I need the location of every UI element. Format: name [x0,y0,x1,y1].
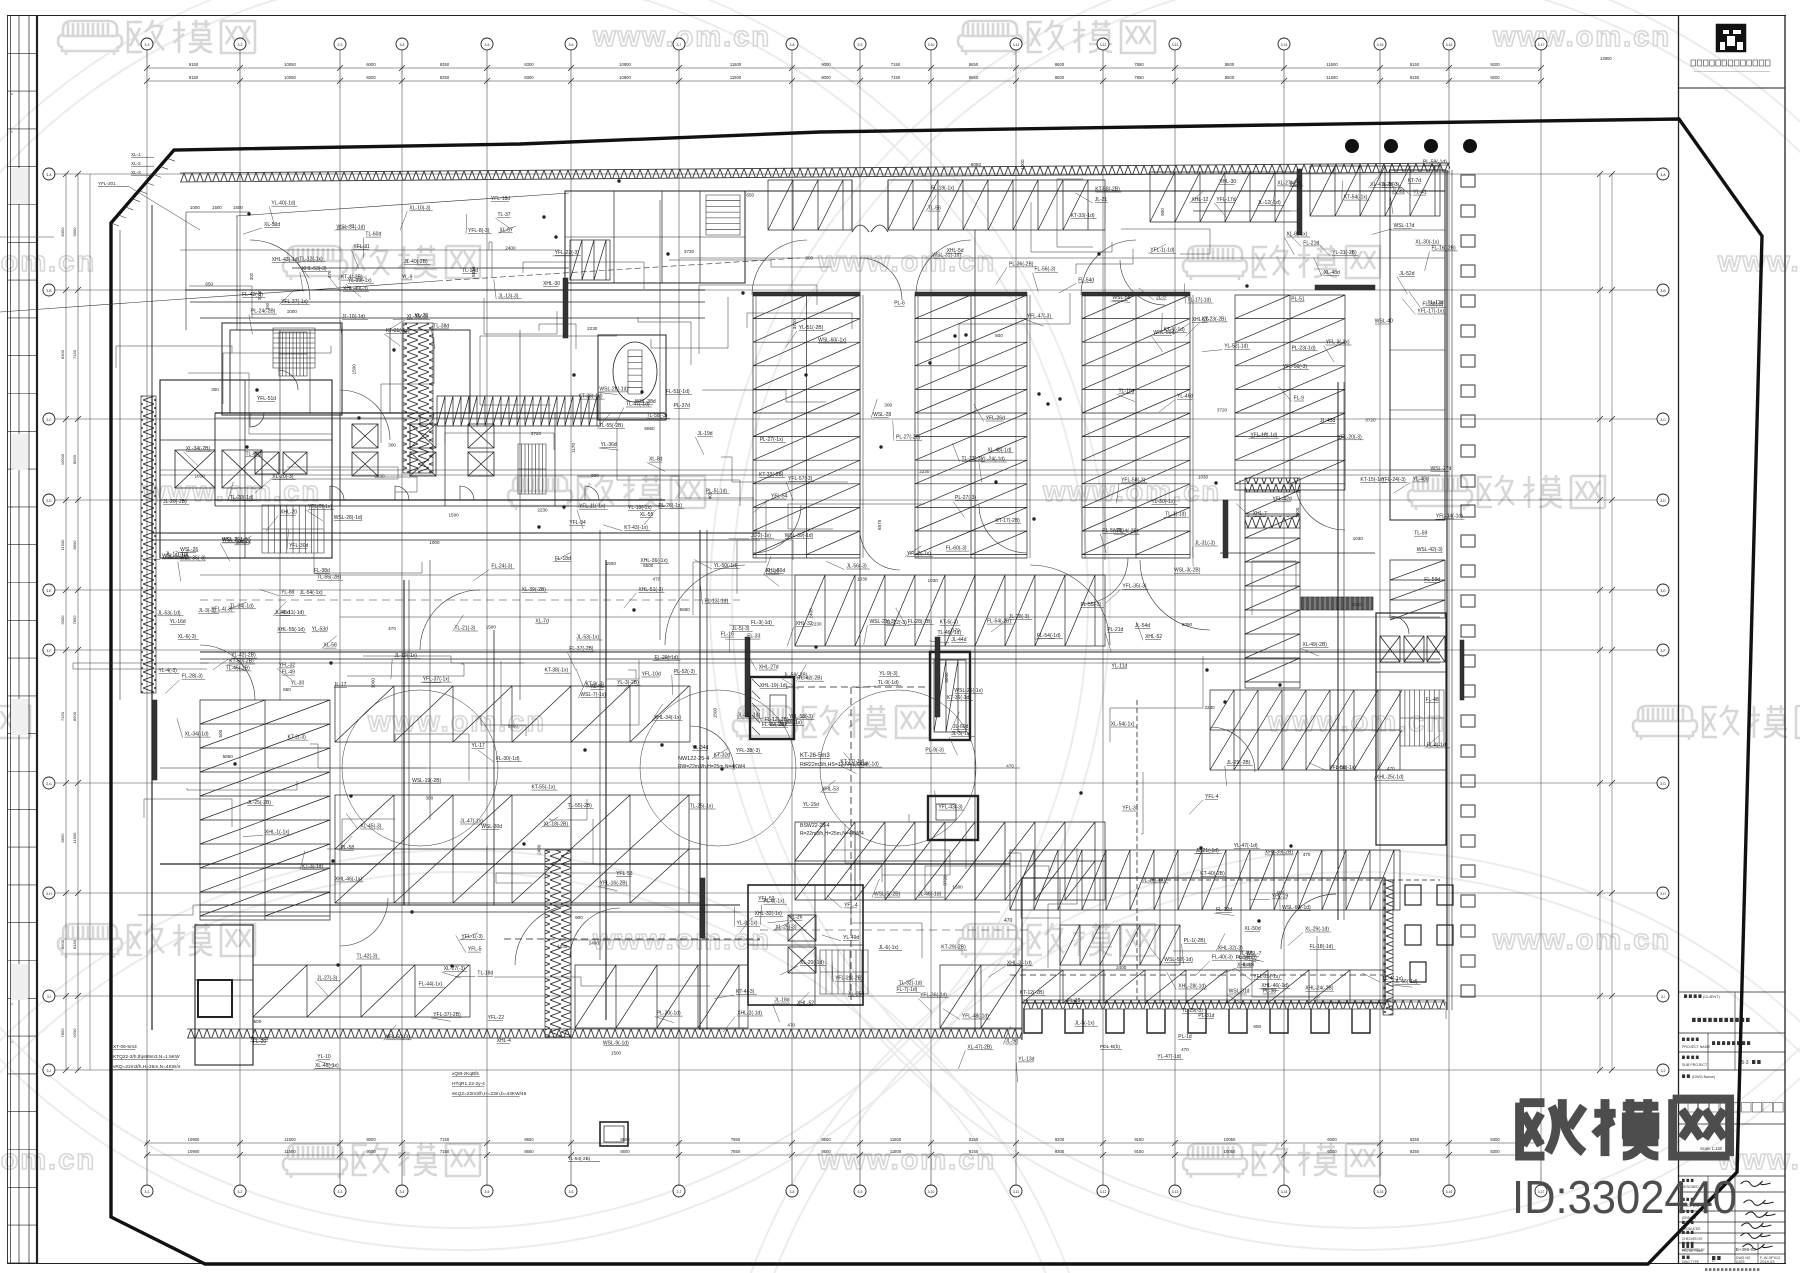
svg-text:8600: 8600 [1055,62,1065,67]
svg-text:YL-48d: YL-48d [1413,476,1429,482]
svg-text:XHL-52: XHL-52 [1145,634,1162,640]
top excavation hatch band [180,163,1450,182]
svg-text:KT-58(-2B): KT-58(-2B) [1095,187,1120,193]
svg-text:8150: 8150 [969,1137,979,1142]
top axis bubbles [141,38,153,50]
svg-text:3-F: 3-F [1660,649,1665,653]
svg-text:xQ8t-zKqBfs: xQ8t-zKqBfs [452,1071,480,1077]
svg-text:PL-37d: PL-37d [674,403,690,409]
svg-text:WSL-30d: WSL-30d [481,824,502,830]
svg-text:8150: 8150 [72,939,77,949]
svg-text:(B+396-03: (B+396-03 [1734,1247,1756,1252]
svg-text:XL-18(-2B): XL-18(-2B) [544,821,569,827]
svg-text:KT-12(-2B): KT-12(-2B) [1020,990,1045,996]
svg-text:3-12: 3-12 [1100,1190,1107,1194]
svg-text:YFL-43(-3): YFL-43(-3) [938,805,963,811]
left dimension lines [65,174,67,1070]
svg-text:8650: 8650 [969,62,979,67]
svg-text:9000: 9000 [821,75,831,80]
svg-text:WSL-58: WSL-58 [1112,295,1130,301]
svg-text:XL-39(-2B): XL-39(-2B) [522,587,547,593]
svg-text:XT-05-5m3: XT-05-5m3 [113,1044,137,1050]
svg-text:650: 650 [746,193,754,198]
svg-text:TL-55(-2B): TL-55(-2B) [599,423,624,429]
svg-text:FL-19: FL-19 [1067,998,1080,1004]
svg-text:1500: 1500 [486,624,497,629]
parking comb mid-left lower [335,795,700,903]
svg-text:8600: 8600 [60,939,65,949]
svg-text:FL-44(-1x): FL-44(-1x) [419,982,443,988]
right lower hatch strip [1383,880,1393,1015]
bottom axis bubbles [141,1185,153,1197]
svg-text:3720: 3720 [1217,407,1228,412]
svg-text:XHL-30: XHL-30 [543,281,560,287]
svg-text:XHL-2(-1d): XHL-2(-1d) [737,1011,762,1017]
svg-text:XL-55: XL-55 [640,512,654,518]
svg-text:XHL-26: XHL-26 [1192,317,1209,323]
big watermark overlay OMW [1520,1099,1730,1156]
svg-text:JL-46(-1d): JL-46(-1d) [918,892,941,898]
svg-text:10900: 10900 [60,453,65,465]
svg-text:1030: 1030 [1198,475,1209,480]
svg-text:11600: 11600 [890,1149,902,1154]
door swing arcs [752,240,807,295]
dense zigzag duct [437,396,600,426]
svg-text:KT-5(-3): KT-5(-3) [940,620,959,626]
prj number row [1682,1245,1685,1248]
svg-text:300: 300 [884,403,892,408]
svg-text:TL-45(-2B): TL-45(-2B) [226,665,251,671]
svg-text:YFL-4(-2B): YFL-4(-2B) [1114,529,1139,535]
svg-text:FL-21d: FL-21d [1303,240,1319,246]
svg-text:DATE: DATE [1736,1260,1746,1264]
bottom dimension lines [145,1142,1541,1144]
svg-text:8300: 8300 [524,75,534,80]
svg-text:YL-53d: YL-53d [312,626,328,632]
svg-text:XL-3: XL-3 [131,170,141,175]
svg-text:JL-29(-2B): JL-29(-2B) [1227,760,1251,766]
svg-text:PRJ.SETTING: PRJ.SETTING [1682,1249,1703,1253]
central pump room (thick walls) [750,677,794,739]
parking comb bottom row left [575,965,748,1028]
right ladder extension [1245,490,1300,688]
svg-text:3-E: 3-E [1660,589,1666,593]
svg-text:1500: 1500 [606,561,617,566]
svg-text:YFL-18d: YFL-18d [491,196,510,202]
svg-text:9000: 9000 [72,227,77,237]
svg-text:XHL-25(-1d): XHL-25(-1d) [1376,775,1404,781]
svg-text:WSL-19(-2B): WSL-19(-2B) [412,778,442,784]
svg-text:8500: 8500 [72,711,77,721]
svg-text:FL-4(-1d): FL-4(-1d) [1427,742,1448,748]
svg-text:RW=22m3/h,H=25m,N=4KW4: RW=22m3/h,H=25m,N=4KW4 [678,764,745,770]
svg-text:JL-5: JL-5 [1156,294,1166,300]
bottom row dwg type/no [1682,1256,1685,1259]
horizontal grid lines [54,173,1658,175]
central services corridor band [215,412,665,414]
svg-text:XL-25(-3): XL-25(-3) [775,924,796,930]
svg-text:3-14: 3-14 [1281,1190,1288,1194]
svg-text:300: 300 [426,795,434,800]
aisle line top [680,257,1445,259]
svg-text:650: 650 [283,687,291,692]
svg-text:YL-21(-2B): YL-21(-2B) [1332,250,1357,256]
svg-text:1500: 1500 [449,512,460,517]
svg-text:YFL-50(-3): YFL-50(-3) [386,1034,411,1040]
svg-text:KT-50(-2B): KT-50(-2B) [229,659,254,665]
svg-text:5850: 5850 [644,426,655,431]
svg-text:3720: 3720 [684,249,695,254]
svg-text:11500: 11500 [284,1149,296,1154]
aisle center dashes [504,938,760,940]
svg-text:TL-33(-3): TL-33(-3) [962,456,983,462]
svg-text:470: 470 [1004,918,1013,924]
big lane arc bottom right [1281,894,1336,949]
wall vertical A [699,530,701,1030]
svg-text:FL-18d: FL-18d [555,556,571,562]
svg-text:FL-9: FL-9 [1294,396,1305,402]
svg-text:YL-15d: YL-15d [803,802,819,808]
right rooms top [1390,170,1445,520]
pipe horizontal dashed [1150,879,1440,881]
svg-text:3: 3 [10,131,14,133]
svg-text:FL-54d: FL-54d [1078,277,1094,283]
svg-text:11600: 11600 [72,832,77,844]
svg-text:7850: 7850 [60,1028,65,1038]
svg-text:FL-12d: FL-12d [1216,907,1232,913]
svg-text:6: 6 [10,93,14,95]
inner hatch strip A [403,323,433,473]
svg-text:14900: 14900 [1600,56,1612,61]
parking comb mid-right lower [795,822,1105,900]
svg-text:WSL-27d: WSL-27d [1431,466,1452,472]
svg-text:TL-32(-1d): TL-32(-1d) [899,981,923,987]
svg-text:9000: 9000 [821,62,831,67]
svg-text:XHL-39(-2B): XHL-39(-2B) [1265,849,1293,855]
svg-text:XHL-34(-1x): XHL-34(-1x) [654,715,682,721]
svg-text:1030: 1030 [557,944,568,949]
svg-text:XHL-12: XHL-12 [1191,197,1208,203]
svg-text:NW122-25-4: NW122-25-4 [678,756,709,762]
svg-text:1030: 1030 [1351,602,1362,607]
svg-text:FL-12(-2B): FL-12(-2B) [765,717,790,723]
svg-text:YFL-6(-1x): YFL-6(-1x) [907,551,931,557]
svg-text:JL-13(-3): JL-13(-3) [498,293,519,299]
top rooms 565-745 [565,191,745,283]
svg-text:JL-5(-3): JL-5(-3) [1382,182,1400,188]
svg-text:9000: 9000 [60,615,65,625]
svg-text:XL-50d: XL-50d [1245,926,1261,932]
svg-text:3-16: 3-16 [1446,43,1453,47]
svg-text:KT-40(-2B): KT-40(-2B) [1200,871,1225,877]
svg-text:9000: 9000 [366,1137,376,1142]
svg-text:KT-17(-2B): KT-17(-2B) [995,518,1020,524]
svg-text:3720: 3720 [1336,765,1347,770]
svg-text:YFL-24(-3): YFL-24(-3) [1382,477,1407,483]
left frame thick line [36,16,38,1264]
svg-text:YFL-31: YFL-31 [353,244,370,250]
svg-text:XHL-28(-1d): XHL-28(-1d) [1178,984,1206,990]
svg-text:8650: 8650 [72,454,77,464]
svg-text:FL-42(-3): FL-42(-3) [242,292,263,298]
svg-text:2230: 2230 [811,622,822,627]
svg-text:WSL-5(-2B): WSL-5(-2B) [874,892,901,898]
svg-text:YL-49d: YL-49d [843,935,859,941]
svg-text:YFL-36(-1d): YFL-36(-1d) [920,992,947,998]
svg-text:YFL-22(-3): YFL-22(-3) [555,250,580,256]
svg-text:8050: 8050 [971,162,982,167]
svg-text:3-D: 3-D [46,499,52,503]
svg-text:WSL-5(-1x): WSL-5(-1x) [162,553,188,559]
svg-text:FL-48: FL-48 [1426,697,1439,703]
svg-text:WSL-28(-1d): WSL-28(-1d) [599,386,628,392]
svg-text:TL-58(-3): TL-58(-3) [647,413,668,419]
svg-text:3-1: 3-1 [145,1190,150,1194]
right axis bubbles [1657,168,1669,180]
svg-text:WSL-28: WSL-28 [873,412,891,418]
svg-text:3-5: 3-5 [485,1190,490,1194]
svg-text:8300: 8300 [524,62,534,67]
svg-text:470: 470 [327,270,332,278]
svg-text:7850: 7850 [731,1137,741,1142]
svg-text:YFL-11(-1x): YFL-11(-1x) [579,504,606,510]
svg-text:TL-20(-1d): TL-20(-1d) [230,495,254,501]
svg-text:1500: 1500 [212,205,222,210]
svg-text:3-I: 3-I [1661,995,1665,999]
svg-text:1500: 1500 [352,364,357,375]
wall vertical B [1337,382,1339,920]
svg-text:YFL-8(-3): YFL-8(-3) [468,228,490,234]
svg-text:PL-21d: PL-21d [1107,627,1123,633]
svg-text:900: 900 [575,915,583,920]
svg-text:6500: 6500 [643,563,654,568]
svg-text:TL-9(-1d): TL-9(-1d) [878,680,899,686]
svg-text:KT-36(-1d): KT-36(-1d) [947,695,971,701]
svg-text:XHL-3(-1d): XHL-3(-1d) [1007,960,1032,966]
svg-text:PL-58(-1d): PL-58(-1d) [1423,160,1447,166]
mid-left wall pair [200,904,740,906]
svg-text:JL-18d: JL-18d [774,998,790,1004]
svg-text:XL-6(-3): XL-6(-3) [178,634,197,640]
svg-text:XL-56(-3): XL-56(-3) [407,314,428,320]
svg-text:XHL-49(-3): XHL-49(-3) [343,286,368,292]
svg-text:8150: 8150 [1410,75,1420,80]
svg-text:JL-19d: JL-19d [697,431,713,437]
svg-text:YL-30: YL-30 [291,681,305,687]
svg-text:FL-30(-1d): FL-30(-1d) [496,756,520,762]
svg-text:XL-27(-3): XL-27(-3) [444,966,465,972]
svg-text:JL-2(-1x): JL-2(-1x) [751,533,771,539]
comb bottom-right small [1060,925,1180,965]
svg-text:XL-20(-1d): XL-20(-1d) [800,960,824,966]
svg-text:JL-59(-2B): JL-59(-2B) [784,672,808,678]
company name pseudo text [1691,60,1696,66]
project name row [1682,1038,1685,1041]
svg-text:9200: 9200 [1490,62,1500,67]
svg-text:YL-13d: YL-13d [1018,1056,1034,1062]
svg-text:2230: 2230 [537,508,548,513]
svg-text:TL-10d: TL-10d [1119,388,1135,394]
svg-text:YFL-42d: YFL-42d [1273,496,1292,502]
parking comb mid-left upper [335,686,690,742]
parking ladder G3 [1082,295,1190,558]
client row [1684,994,1687,998]
svg-text:sKQ2=22m3/h,H=23m,b=44KW/46: sKQ2=22m3/h,H=23m,b=44KW/46 [452,1091,527,1097]
svg-text:YL-41: YL-41 [1413,190,1427,196]
svg-text:500: 500 [254,1019,262,1024]
svg-text:8500: 8500 [821,1137,831,1142]
svg-text:PROJECT NAME: PROJECT NAME [1682,1045,1711,1049]
top-left stair room [222,323,342,415]
corridor line B [152,532,760,534]
sheet frame bottom border [7,1263,1786,1265]
corridor double line A [200,651,1440,653]
svg-text:TL-17(-1d): TL-17(-1d) [1187,298,1211,304]
svg-text:PL-24(-2B): PL-24(-2B) [251,309,276,315]
svg-text:YL-11d: YL-11d [1112,663,1128,669]
svg-text:10900: 10900 [188,1137,200,1142]
svg-text:300: 300 [249,272,254,280]
svg-text:500: 500 [218,729,223,737]
svg-text:3-3: 3-3 [338,1190,343,1194]
svg-text:11500: 11500 [284,1137,296,1142]
svg-text:XHL-7: XHL-7 [1253,511,1267,517]
svg-text:YFL-4: YFL-4 [1205,794,1219,800]
svg-text:9: 9 [10,1041,14,1043]
svg-text:2: 2 [10,1003,14,1005]
svg-text:KT-54(-1x): KT-54(-1x) [1344,195,1368,201]
svg-text:KT-55(-1x): KT-55(-1x) [532,785,556,791]
svg-text:3720: 3720 [942,875,947,886]
svg-text:YFL-18(-1d): YFL-18(-1d) [1250,433,1277,439]
parking comb right middle [1210,690,1402,770]
svg-text:8650: 8650 [524,1149,534,1154]
striped duct rects [1245,478,1300,492]
svg-text:1000: 1000 [1295,507,1300,518]
svg-text:JL-44d: JL-44d [951,637,967,643]
svg-text:3-1: 3-1 [145,43,150,47]
svg-text:2019.03: 2019.03 [1760,1259,1775,1264]
svg-text:8350: 8350 [1410,1137,1420,1142]
right shoring pile squares [1461,175,1475,187]
svg-text:1000: 1000 [429,540,440,545]
svg-text:470: 470 [653,576,661,581]
svg-text:1030: 1030 [928,578,939,583]
svg-text:FL-39(-2B): FL-39(-2B) [762,722,787,728]
svg-text:WSL-26(-1x): WSL-26(-1x) [954,688,983,694]
right margin dim verticals [1599,174,1601,1070]
right plan wall [1446,170,1448,1010]
center room B thick [930,652,970,740]
parking comb bottom right [1010,850,1400,910]
svg-text:YFL-57(-3): YFL-57(-3) [788,476,813,482]
svg-text:8050: 8050 [1182,622,1193,627]
svg-text:YL-47(-1d): YL-47(-1d) [1234,843,1258,849]
svg-text:XL-46: XL-46 [591,684,605,690]
svg-text:vRQ=22m3/h,H=25m,N=4KW/4: vRQ=22m3/h,H=25m,N=4KW/4 [113,1064,181,1070]
svg-text:YFL-25(-1x): YFL-25(-1x) [1253,974,1280,980]
svg-text:YFL-5: YFL-5 [468,947,482,953]
svg-text:www.om.cn: www.om.cn [1492,924,1671,956]
svg-text:8600: 8600 [1055,75,1065,80]
dark grating strip [1301,597,1373,610]
svg-text:JL-52d: JL-52d [1399,271,1415,277]
svg-text:YFL-22: YFL-22 [488,1015,505,1021]
svg-text:XL-2: XL-2 [131,161,141,166]
oval stair room [598,335,666,420]
svg-text:1170: 1170 [571,443,576,453]
svg-text:HTqR1,22-2y-4: HTqR1,22-2y-4 [452,1081,485,1087]
svg-text:XL-7d: XL-7d [535,618,549,624]
svg-text:3-H: 3-H [46,892,52,896]
svg-text:JL-54(-1x): JL-54(-1x) [300,590,323,596]
svg-text:7150: 7150 [440,1137,450,1142]
svg-text:3-16: 3-16 [1446,1190,1453,1194]
svg-text:JL-6(-1x): JL-6(-1x) [879,945,899,951]
svg-text:10050: 10050 [1224,1137,1236,1142]
svg-text:WSL-60(-1x): WSL-60(-1x) [818,338,847,344]
bottom core [748,885,863,1005]
svg-text:8600: 8600 [620,1137,630,1142]
svg-text:WSL-3(-2B): WSL-3(-2B) [1174,568,1201,574]
top dimension lines [147,67,1541,69]
svg-text:FL-3(-1d): FL-3(-1d) [751,620,772,626]
svg-text:XL-58: XL-58 [324,643,338,649]
svg-text:FL-40(-3): FL-40(-3) [1212,955,1233,961]
svg-text:KT-38(-1x): KT-38(-1x) [545,668,569,674]
svg-text:XL-8d: XL-8d [649,457,663,463]
svg-text:1500: 1500 [233,205,243,210]
svg-text:YFL-56(-3): YFL-56(-3) [1283,364,1308,370]
svg-text:WSL-9(-1d): WSL-9(-1d) [603,1040,629,1046]
stair mid band [518,444,546,494]
svg-text:300: 300 [388,442,396,447]
svg-text:YL-9: YL-9 [402,274,413,280]
svg-text:www.om.cn: www.om.cn [0,1144,96,1176]
parking ladder G2 [915,295,1027,558]
svg-text:3-14: 3-14 [1281,43,1288,47]
svg-text:TL-59: TL-59 [1414,531,1427,537]
svg-text:7150: 7150 [72,349,77,359]
svg-text:YFL-10d: YFL-10d [642,672,661,678]
bottom outside box [600,1122,628,1146]
parking ladder G1 [753,295,860,558]
rooms above band [230,330,470,413]
svg-text:XHL-43(-1d): XHL-43(-1d) [272,257,300,263]
bottom-left cluster [195,925,253,1065]
svg-text:YL-24(-1d): YL-24(-1d) [981,457,1005,463]
svg-text:KT-26-5m3: KT-26-5m3 [800,753,830,759]
svg-text:3-13: 3-13 [1172,43,1179,47]
svg-text:3-G: 3-G [46,782,52,786]
svg-text:YL-46d: YL-46d [1177,394,1193,400]
svg-text:300: 300 [211,387,219,392]
svg-text:8150: 8150 [969,1149,979,1154]
svg-text:8500: 8500 [821,1149,831,1154]
parking stall row top A [768,180,852,230]
svg-text:TL-38d: TL-38d [433,323,449,329]
svg-text:YFL-32: YFL-32 [279,662,296,668]
svg-text:FL-18(-1d): FL-18(-1d) [1310,944,1334,950]
grid line into left margin [0,236,54,238]
svg-text:6575: 6575 [877,519,882,530]
svg-text:PL-4: PL-4 [1290,181,1301,187]
svg-text:KT-7d: KT-7d [1408,178,1422,184]
parking ladder left column [200,700,330,920]
svg-text:3-8: 3-8 [790,1190,795,1194]
svg-text:www.om.cn: www.om.cn [817,246,996,278]
svg-text:YL-10(-1x): YL-10(-1x) [628,505,652,511]
